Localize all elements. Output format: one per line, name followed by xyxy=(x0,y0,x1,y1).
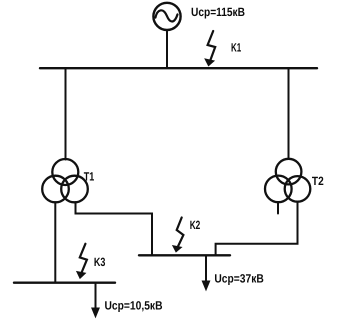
wire bus to T1 xyxy=(65,68,67,159)
svg-text:K2: K2 xyxy=(190,218,201,232)
svg-text:T1: T1 xyxy=(84,170,95,184)
bus 115kV xyxy=(40,67,317,69)
load arrow 10.5kV xyxy=(95,284,97,311)
wire T2 step to 37kV bus xyxy=(216,202,298,255)
svg-text:Ucp=37кВ: Ucp=37кВ xyxy=(214,271,264,285)
K2 lightning xyxy=(177,218,184,249)
svg-text:K1: K1 xyxy=(231,41,241,55)
T2 middle winding stub xyxy=(277,202,279,213)
bus 10.5kV xyxy=(14,282,115,284)
wire T1 to 10.5kV bus xyxy=(54,202,56,282)
bus 37kV xyxy=(139,254,230,256)
wire bus to T2 xyxy=(288,68,290,159)
load arrow 37kV xyxy=(205,256,207,284)
generator sine wave xyxy=(155,10,177,21)
wire generator to bus xyxy=(166,31,168,68)
K1 lightning xyxy=(208,31,216,63)
transformer T1 xyxy=(42,159,88,202)
transformer T2 xyxy=(265,159,310,202)
svg-text:K3: K3 xyxy=(94,255,106,269)
svg-text:T2: T2 xyxy=(312,174,324,188)
svg-text:Ucp=115кВ: Ucp=115кВ xyxy=(191,5,245,19)
svg-text:Ucp=10,5кВ: Ucp=10,5кВ xyxy=(105,298,163,312)
K3 lightning xyxy=(80,244,87,274)
wire T1 step to 37kV bus xyxy=(76,202,153,255)
generator G xyxy=(153,3,180,30)
